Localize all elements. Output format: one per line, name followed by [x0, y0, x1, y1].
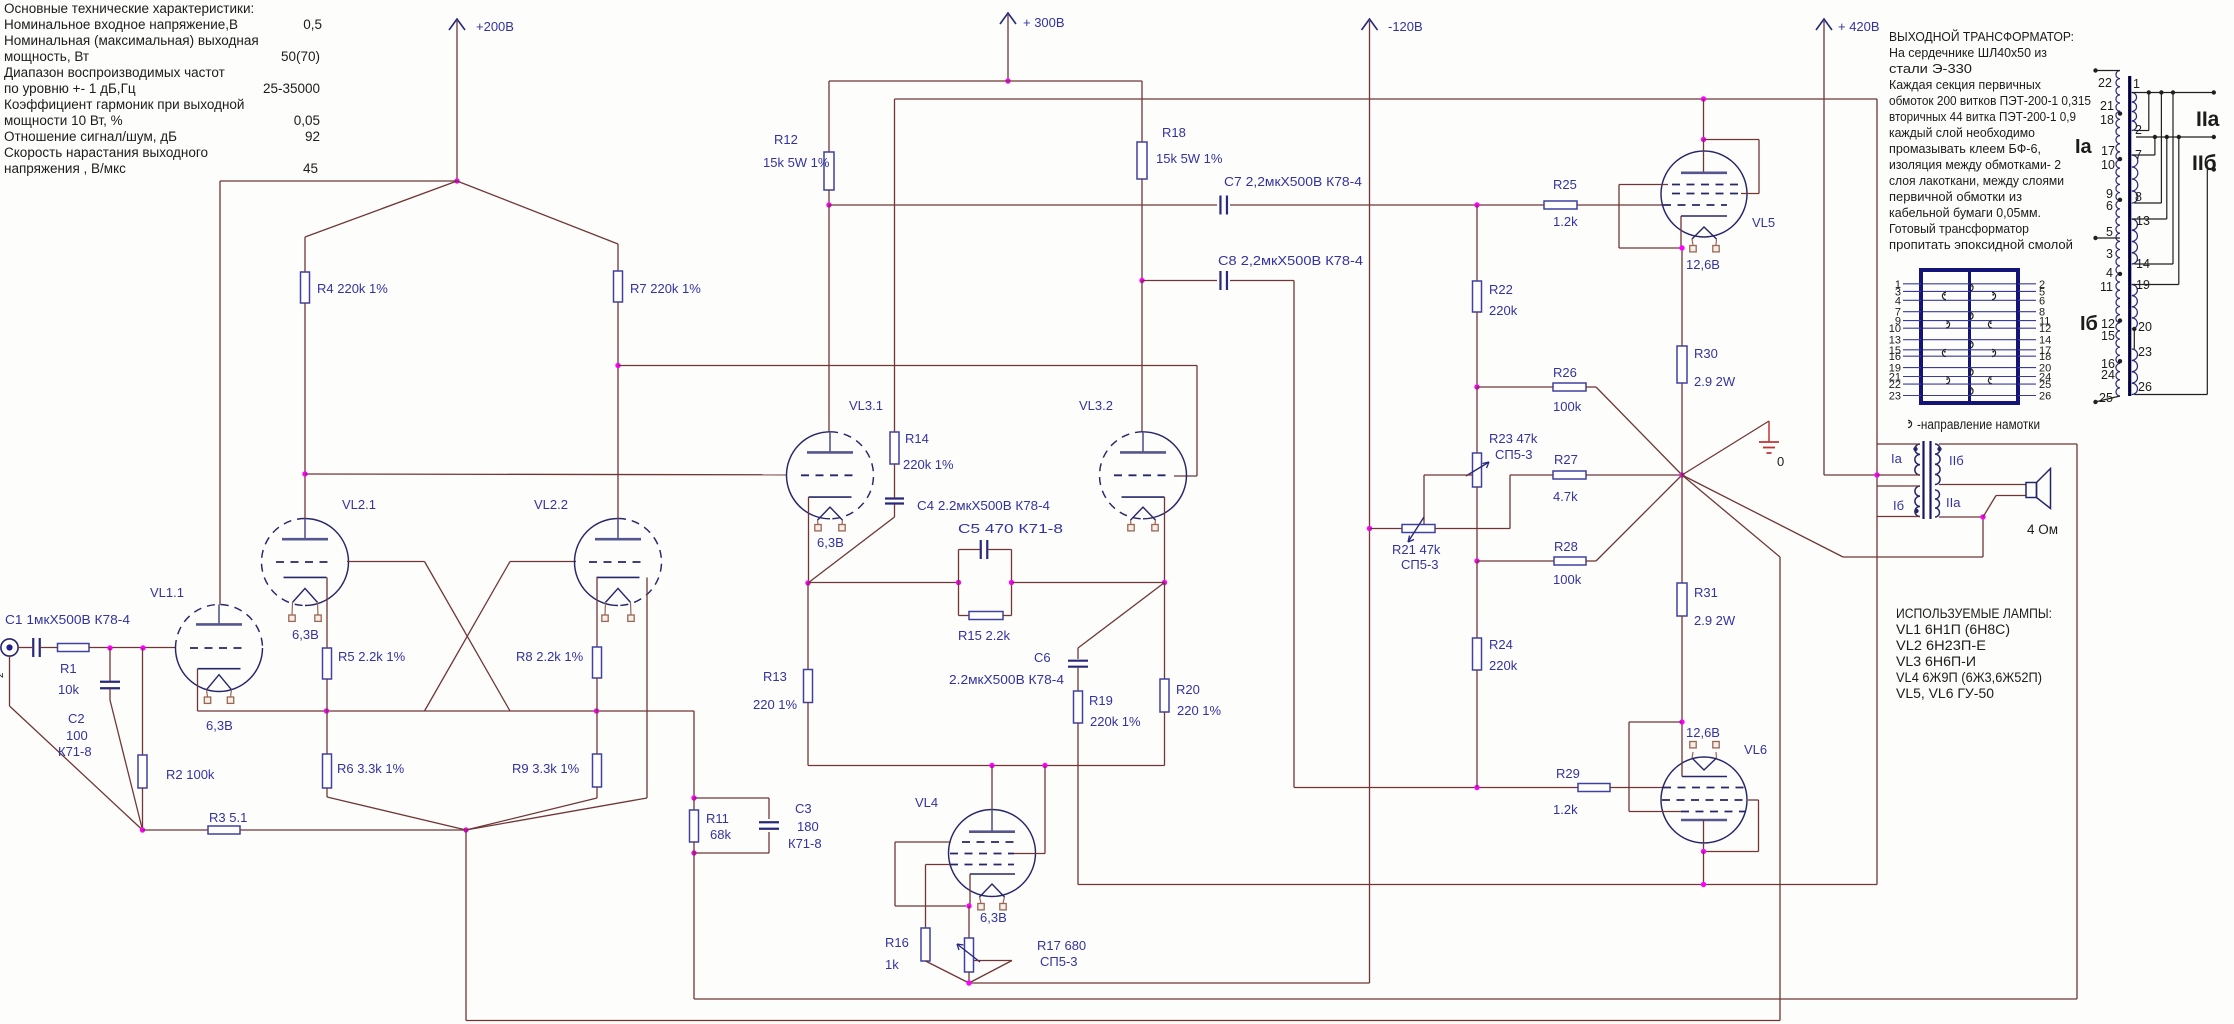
- wire star to R31: [1681, 475, 1683, 583]
- wire R7 junction down to VL2.2 plate: [617, 366, 619, 519]
- wire IIa bottom to return node: [1939, 516, 1983, 518]
- input connector X1: [1, 639, 18, 656]
- tube VL4 control grid: [950, 864, 1014, 866]
- node R24 bottom junction: [1474, 785, 1479, 790]
- svg-text:180: 180: [797, 819, 819, 834]
- wire +420V to output transformer centre tap: [1824, 474, 1877, 476]
- svg-text:Ia: Ia: [2075, 136, 2093, 158]
- svg-text:220k 1%: 220k 1%: [903, 457, 954, 472]
- svg-text:+ 300В: + 300В: [1023, 15, 1065, 30]
- wire diagonal VL3.2 cathode to C6: [1078, 583, 1165, 649]
- wire cross diagonal B (R5 to VL2.2 grid): [425, 562, 511, 712]
- wire R20 to tail bus: [1164, 712, 1166, 766]
- svg-text:6,3В: 6,3В: [980, 910, 1007, 925]
- tube VL5 screen grid: [1672, 193, 1740, 195]
- winding direction legend: [1908, 420, 1912, 427]
- svg-text:68k: 68k: [710, 827, 731, 842]
- svg-text:15k 5W 1%: 15k 5W 1%: [1156, 151, 1223, 166]
- svg-text:R6 3.3k 1%: R6 3.3k 1%: [337, 761, 405, 776]
- wire R23 to R28 node: [1476, 487, 1478, 561]
- svg-text:15k 5W 1%: 15k 5W 1%: [763, 155, 830, 170]
- resistor R20: [1164, 583, 1166, 680]
- ground symbol: [1682, 421, 1769, 475]
- tube VL3.1 envelope: [787, 432, 831, 519]
- wire VL5 suppressor-cathode link: [1619, 184, 1668, 186]
- capacitor C8 line: [1142, 280, 1217, 282]
- tube VL3.2 plate: [1120, 451, 1166, 454]
- svg-text:6,3В: 6,3В: [292, 627, 319, 642]
- node ground-bus left: [140, 827, 145, 832]
- svg-text:3: 3: [2106, 247, 2113, 261]
- capacitor C7 line: [829, 204, 1217, 206]
- wire star to R30: [1681, 383, 1683, 475]
- primary tap 3 stub: [2096, 237, 2121, 239]
- resistor R15: [969, 612, 1003, 620]
- svg-text:18: 18: [2039, 351, 2051, 363]
- wire C2 to ground bus diagonal: [110, 700, 143, 830]
- +200V supply arrow: [456, 21, 458, 181]
- wire R31 to VL6 cathode: [1681, 616, 1683, 722]
- wire R21 to R27: [1435, 528, 1510, 530]
- svg-text:10: 10: [2101, 158, 2115, 172]
- svg-text:220k: 220k: [1489, 658, 1518, 673]
- svg-text:Номинальная (максимальная) вых: Номинальная (максимальная) выходная: [4, 33, 259, 48]
- tube VL2.2 grid: [589, 561, 647, 563]
- svg-text:ИСПОЛЬЗУЕМЫЕ ЛАМПЫ:: ИСПОЛЬЗУЕМЫЕ ЛАМПЫ:: [1896, 606, 2052, 621]
- svg-text:17: 17: [2101, 144, 2115, 158]
- T1 full winding diagram primary coil: [2116, 71, 2120, 397]
- resistor R12: [824, 152, 834, 190]
- node R11 bottom: [691, 850, 696, 855]
- secondary winding sections: [2132, 93, 2137, 131]
- svg-text:Основные технические характери: Основные технические характеристики:: [4, 1, 254, 16]
- resistor R8: [593, 647, 602, 678]
- tube VL5 suppressor grid: [1672, 184, 1738, 186]
- secondary terminal IIb return: [2207, 169, 2214, 171]
- wire VL6 cathode to R31: [1681, 722, 1683, 777]
- ground return bus bottom: [466, 1020, 1780, 1022]
- svg-text:22: 22: [2098, 76, 2112, 90]
- svg-text:R19: R19: [1089, 693, 1113, 708]
- svg-text:R5 2.2k 1%: R5 2.2k 1%: [338, 649, 406, 664]
- svg-text:ВЫХОДНОЙ ТРАНСФОРМАТОР:: ВЫХОДНОЙ ТРАНСФОРМАТОР:: [1889, 29, 2074, 44]
- svg-text:25-35000: 25-35000: [263, 81, 320, 96]
- svg-text:С4 2.2мкХ500В К78-4: С4 2.2мкХ500В К78-4: [917, 498, 1050, 513]
- svg-text:R30: R30: [1694, 346, 1718, 361]
- svg-text:10k: 10k: [58, 682, 79, 697]
- wire R4 to plate node: [304, 303, 306, 474]
- svg-text:C6: C6: [1034, 650, 1051, 665]
- svg-text:VL4: VL4: [915, 795, 938, 810]
- wire R22 to R26 node: [1476, 312, 1478, 387]
- svg-text:R29: R29: [1556, 766, 1580, 781]
- winding Ib polarity dot: [1914, 509, 1918, 513]
- tube VL2.2 plate: [595, 538, 641, 541]
- svg-text:5: 5: [2106, 225, 2113, 239]
- svg-text:16: 16: [1889, 351, 1901, 363]
- wire Ib bottom lead: [1877, 516, 1920, 518]
- tube VL3.1 heater pins: [817, 520, 820, 524]
- svg-text:мощность, Вт: мощность, Вт: [4, 49, 89, 64]
- trimmer R17: [968, 906, 970, 938]
- node R2 tap: [140, 645, 145, 650]
- svg-text:R3 5.1: R3 5.1: [209, 810, 247, 825]
- resistor R13: [807, 583, 809, 670]
- wire roof left to VL1.1 plate: [220, 180, 457, 182]
- svg-text:-120В: -120В: [1388, 19, 1423, 34]
- node R21 on -120V: [1367, 526, 1372, 531]
- svg-text:С1 1мкХ500В К78-4: С1 1мкХ500В К78-4: [5, 612, 130, 627]
- node +200V roof junction: [454, 178, 459, 183]
- tube VL3.1 grid: [801, 474, 859, 476]
- svg-text:VL1 6Н1П (6Н8С): VL1 6Н1П (6Н8С): [1896, 622, 2010, 637]
- wire VL4 control grid to R16: [926, 864, 951, 866]
- svg-text:8: 8: [2135, 190, 2142, 204]
- capacitor C3 box: [694, 797, 769, 799]
- svg-text:Iб: Iб: [1893, 498, 1904, 513]
- svg-text:С7 2,2мкХ500В К78-4: С7 2,2мкХ500В К78-4: [1224, 174, 1362, 189]
- svg-text:+ 420В: + 420В: [1838, 19, 1880, 34]
- resistor R19: [1074, 691, 1083, 723]
- output bus y884 to VL6 plate and Ib winding: [1078, 884, 1877, 886]
- speaker LS1: [2026, 483, 2037, 498]
- tube VL3.2 grid: [1114, 474, 1172, 476]
- node VL3.2 plate node: [1139, 278, 1144, 283]
- winding IIa: [1935, 490, 1940, 517]
- wire bottom junction down to ground return bus: [465, 830, 467, 1021]
- tube VL6 plate: [1681, 819, 1727, 822]
- svg-text:4: 4: [1895, 295, 1901, 307]
- svg-text:2.9 2W: 2.9 2W: [1694, 374, 1736, 389]
- svg-text:4 Ом: 4 Ом: [2027, 522, 2058, 537]
- winding table centre divider: [1968, 272, 1971, 401]
- tube VL6 envelope: [1661, 757, 1747, 843]
- wire to R12: [828, 81, 830, 152]
- svg-text:К71-8: К71-8: [788, 836, 822, 851]
- wire VL1.1 cathode to y711 rail: [197, 669, 199, 711]
- wire grid feed to VL3.1: [305, 473, 787, 476]
- svg-text:12: 12: [2039, 323, 2051, 335]
- node VL5 cathode junction: [1679, 245, 1684, 250]
- node speaker return: [1980, 514, 1985, 519]
- node C5 box left: [956, 580, 961, 585]
- resistor R2: [142, 648, 144, 755]
- wire VL6 plate lead down: [1703, 820, 1705, 852]
- wire VL5 plate feed: [1703, 99, 1705, 140]
- svg-text:+200В: +200В: [476, 19, 514, 34]
- wire roof diagonal to R7: [457, 181, 618, 244]
- wire star to speaker return: [1682, 475, 1843, 557]
- wire VL4 screen to tail bus: [1014, 853, 1045, 855]
- wire star to VL6 right rail: [1682, 475, 1780, 557]
- primary tap 22 stub: [2096, 70, 2121, 72]
- svg-text:R27: R27: [1554, 452, 1578, 467]
- svg-text:0,05: 0,05: [294, 113, 320, 128]
- wire Ib top lead: [1877, 485, 1920, 487]
- wire return to speaker: [1983, 496, 1996, 518]
- svg-text:13: 13: [2136, 214, 2150, 228]
- wire R16 to bias junction: [926, 961, 970, 983]
- primary junction dots: [2118, 111, 2122, 115]
- tube VL2.1 grid: [276, 561, 334, 563]
- tube VL5 envelope: [1661, 151, 1747, 237]
- svg-text:6: 6: [2106, 199, 2113, 213]
- resistor R26: [1477, 386, 1553, 388]
- capacitor C1: [32, 638, 34, 657]
- svg-text:22: 22: [1889, 379, 1901, 391]
- tube VL6 cathode: [1682, 776, 1727, 778]
- wire VL6 screen strap: [1748, 799, 1759, 801]
- capacitor C2: [109, 648, 111, 682]
- svg-text:Коэффициент гармоник при выход: Коэффициент гармоник при выходной: [4, 97, 244, 112]
- wire +300V rail: [829, 80, 1142, 82]
- tail bus y765: [808, 765, 1165, 767]
- svg-text:45: 45: [303, 161, 318, 176]
- svg-text:Диапазон воспроизводимых часто: Диапазон воспроизводимых частот: [4, 65, 225, 80]
- primary tap 25 stub: [2097, 396, 2120, 402]
- svg-text:25: 25: [2039, 379, 2051, 391]
- svg-text:23: 23: [1889, 391, 1901, 403]
- wire VL2.1 grid stub: [347, 561, 425, 563]
- node VL6 plate on bus: [1701, 882, 1706, 887]
- svg-text:IIа: IIа: [1946, 495, 1961, 510]
- tube VL3.1 plate: [807, 451, 853, 454]
- svg-text:стали Э-330: стали Э-330: [1889, 61, 1972, 76]
- svg-text:На сердечнике ШЛ40х50 из: На сердечнике ШЛ40х50 из: [1889, 45, 2047, 60]
- wire Ia top lead: [1877, 443, 1920, 445]
- svg-text:R20: R20: [1176, 682, 1200, 697]
- node R11 top: [691, 795, 696, 800]
- svg-text:R11: R11: [706, 811, 729, 826]
- svg-text:IIа: IIа: [2196, 108, 2220, 131]
- svg-text:мощности 10 Вт, %: мощности 10 Вт, %: [4, 113, 123, 128]
- node star (common cathode return): [1679, 472, 1684, 477]
- wire VL4 suppressor to cathode: [895, 841, 951, 843]
- svg-text:Скорость нарастания выходного: Скорость нарастания выходного: [4, 145, 208, 160]
- tube VL3.2 heater pins: [1130, 520, 1133, 524]
- node R26 junction: [1474, 384, 1479, 389]
- svg-text:15: 15: [2101, 329, 2115, 343]
- svg-text:вторичных 44 витка ПЭТ-200-1: вторичных 44 витка ПЭТ-200-1 0,9: [1889, 109, 2076, 124]
- winding table frame: [1921, 270, 2018, 403]
- wire VL2.2 grid stub: [510, 561, 576, 563]
- svg-text:VL3.1: VL3.1: [849, 398, 883, 413]
- svg-text:23: 23: [2138, 345, 2152, 359]
- wire R26 diagonal to star: [1586, 386, 1596, 388]
- svg-text:4.7k: 4.7k: [1553, 489, 1578, 504]
- svg-text:Отношение сигнал/шум, дБ: Отношение сигнал/шум, дБ: [4, 129, 177, 144]
- svg-text:-направление намотки: -направление намотки: [1917, 417, 2040, 432]
- node VL3.2 grid feed: [615, 363, 620, 368]
- wire R13 to tail bus: [807, 702, 809, 766]
- resistor R30: [1677, 346, 1687, 383]
- node VL6 cathode junction: [1679, 719, 1684, 724]
- wire diagonal to C4: [808, 517, 895, 583]
- winding table row lines and pins: [1923, 283, 2016, 285]
- wire VL3.1 cathode line to C5 box: [808, 582, 959, 584]
- svg-text:1.2k: 1.2k: [1553, 802, 1578, 817]
- svg-text:50(70): 50(70): [281, 49, 320, 64]
- node VL4 plate on bus: [989, 763, 994, 768]
- svg-text:1k: 1k: [885, 957, 899, 972]
- trimmer R21: [1370, 528, 1403, 530]
- svg-text:первичной обмотки из: первичной обмотки из: [1889, 189, 2022, 204]
- svg-text:R1: R1: [60, 661, 77, 676]
- wire R9 to bottom junction: [596, 787, 598, 798]
- node R8-R9 junction: [594, 708, 599, 713]
- tube VL1.1 cathode: [198, 668, 241, 670]
- svg-text:R7 220k 1%: R7 220k 1%: [630, 281, 701, 296]
- svg-text:R12: R12: [774, 132, 798, 147]
- wire C8 branch down to VL6 grid line: [1293, 281, 1295, 788]
- svg-text:R18: R18: [1162, 125, 1186, 140]
- svg-text:100k: 100k: [1553, 399, 1582, 414]
- capacitor C4: [894, 505, 896, 518]
- tube VL2.2 cathode: [597, 576, 640, 578]
- node VL3.2 cathode junction: [1162, 580, 1167, 585]
- winding Ia polarity dot: [1913, 447, 1917, 451]
- svg-text:26: 26: [2138, 380, 2152, 394]
- wire input to R1: [18, 647, 33, 649]
- node R5-R6 junction: [324, 708, 329, 713]
- node VL4 bias junction (-120V): [966, 980, 971, 985]
- svg-text:R16: R16: [885, 935, 909, 950]
- tube VL3.2 cathode: [1122, 496, 1165, 498]
- svg-text:СП5-3: СП5-3: [1040, 954, 1078, 969]
- svg-text:VL6: VL6: [1744, 742, 1767, 757]
- svg-text:2.9 2W: 2.9 2W: [1694, 613, 1736, 628]
- svg-text:6: 6: [2039, 295, 2045, 307]
- wire VL6 plate to output bus: [1703, 852, 1705, 885]
- svg-text:220 1%: 220 1%: [753, 697, 798, 712]
- wire VL5 plate lead: [1703, 140, 1705, 173]
- wire VL2.1 cathode to R5: [326, 577, 328, 648]
- parallel C5/R15 box: [958, 550, 960, 616]
- svg-text:2: 2: [0, 672, 6, 678]
- resistor R4: [301, 272, 310, 303]
- wire VL5 cathode to R30: [1680, 216, 1682, 248]
- svg-text:C2: C2: [68, 711, 85, 726]
- svg-text:220 1%: 220 1%: [1177, 703, 1222, 718]
- winding direction glyphs: [1970, 284, 1974, 291]
- svg-text:100k: 100k: [1553, 572, 1582, 587]
- tube VL4 plate: [969, 830, 1015, 833]
- resistor R28: [1477, 560, 1554, 562]
- tube VL2.1 cathode: [284, 576, 327, 578]
- resistor R31: [1677, 583, 1687, 616]
- svg-text:VL5, VL6 ГУ-50: VL5, VL6 ГУ-50: [1896, 686, 1994, 701]
- svg-text:R14: R14: [905, 431, 929, 446]
- svg-text:R22: R22: [1489, 282, 1513, 297]
- svg-text:СП5-3: СП5-3: [1495, 447, 1533, 462]
- svg-text:20: 20: [2138, 320, 2152, 334]
- wire R4 junction down to VL2.1 plate: [304, 474, 306, 519]
- tube VL4 cathode: [970, 873, 1015, 875]
- svg-text:92: 92: [305, 129, 320, 144]
- -120V supply arrow: [1369, 21, 1371, 983]
- svg-text:VL2.1: VL2.1: [342, 497, 376, 512]
- wire R1 to VL1.1 grid: [89, 647, 176, 649]
- svg-text:Номинальное входное напряжение: Номинальное входное напряжение,В: [4, 17, 238, 32]
- tube VL5 plate: [1681, 172, 1727, 175]
- NFB bus y999: [694, 998, 2077, 1000]
- wire bus corner down right side to Ia winding: [1876, 99, 1878, 885]
- node VL4 cathode junction: [966, 903, 971, 908]
- wire IIb bottom to speaker: [1939, 484, 2026, 486]
- resistor R24: [1476, 561, 1478, 638]
- svg-text:R28: R28: [1554, 539, 1578, 554]
- wire bus corner down to R14: [894, 99, 896, 432]
- svg-text:2.2мкХ500В К78-4: 2.2мкХ500В К78-4: [949, 672, 1064, 687]
- tube VL4 suppressor grid: [962, 841, 1014, 843]
- tube VL2.1 envelope: [305, 519, 348, 606]
- resistor R1: [58, 644, 90, 652]
- output transformer T1 winding Ia: [1915, 444, 1920, 475]
- svg-text:1: 1: [2133, 77, 2140, 91]
- svg-text:IIб: IIб: [2192, 152, 2217, 175]
- wire R6 to bottom junction: [326, 788, 328, 797]
- svg-text:по уровню +- 1 дБ,Гц: по уровню +- 1 дБ,Гц: [4, 81, 136, 96]
- resistor R5: [323, 648, 332, 679]
- node C2 tap: [107, 645, 112, 650]
- svg-text:11: 11: [2100, 280, 2113, 294]
- svg-text:C3: C3: [795, 801, 812, 816]
- T1 diagram core: [2128, 76, 2131, 396]
- wire R5 to junction: [326, 679, 328, 711]
- svg-text:Iб: Iб: [2080, 313, 2098, 335]
- node VL5 screen tie: [1701, 137, 1706, 142]
- svg-text:слоя лакоткани, между слоями: слоя лакоткани, между слоями: [1889, 173, 2064, 188]
- svg-text:R9 3.3k 1%: R9 3.3k 1%: [512, 761, 580, 776]
- capacitor C6: [1077, 648, 1079, 659]
- node R28 junction: [1474, 558, 1479, 563]
- svg-text:21: 21: [2100, 99, 2114, 113]
- node VL3.1 grid feed: [302, 471, 307, 476]
- +420V supply arrow: [1823, 21, 1825, 475]
- svg-text:0: 0: [1777, 454, 1784, 469]
- wire box to VL3.2 cathode: [1012, 582, 1165, 584]
- secondary terminal row IIb: [2136, 136, 2214, 138]
- node VL3.1 plate node: [826, 202, 831, 207]
- svg-text:Ia: Ia: [1891, 451, 1903, 466]
- wire R30 to VL5 cathode: [1681, 248, 1683, 346]
- svg-text:12,6В: 12,6В: [1686, 257, 1720, 272]
- resistor R16: [921, 928, 930, 961]
- svg-text:220k: 220k: [1489, 303, 1518, 318]
- tube VL2.2 heater pins: [604, 602, 607, 615]
- wire roof diagonal to R4: [305, 181, 457, 237]
- resistor R14: [890, 432, 899, 464]
- svg-text:Готовый трансформатор: Готовый трансформатор: [1889, 221, 2029, 236]
- svg-text:R13: R13: [763, 669, 787, 684]
- svg-text:100: 100: [66, 728, 88, 743]
- svg-text:24: 24: [2101, 368, 2115, 382]
- resistor R22: [1476, 205, 1478, 281]
- tube VL2.2 envelope: [575, 519, 619, 606]
- node +300V junction: [1005, 78, 1010, 83]
- wire VL2.2 cathode right leg to bottom junction: [646, 577, 648, 798]
- svg-text:VL1.1: VL1.1: [150, 585, 184, 600]
- svg-text:каждый слой необходимо: каждый слой необходимо: [1889, 125, 2035, 140]
- tube VL1.1 envelope: [176, 648, 263, 692]
- winding Ib: [1915, 486, 1920, 517]
- svg-text:R21 47k: R21 47k: [1392, 542, 1441, 557]
- tube VL4 screen grid: [950, 853, 1014, 855]
- secondary terminal row IIa: [2132, 92, 2214, 94]
- svg-text:изоляция между обмотками- 2: изоляция между обмотками- 2: [1889, 157, 2061, 172]
- node bottom junction: [463, 827, 468, 832]
- node VL4 screen on bus: [1042, 763, 1047, 768]
